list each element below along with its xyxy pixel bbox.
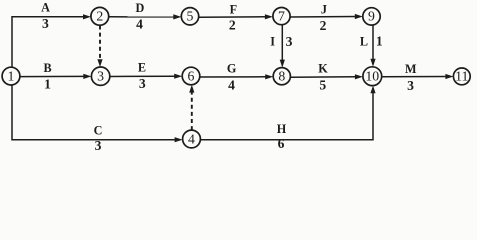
node 6 — [182, 67, 200, 85]
svg-text:10: 10 — [365, 69, 379, 84]
svg-text:3: 3 — [286, 34, 293, 49]
wire E (3 to 6) — [110, 74, 182, 79]
svg-text:E: E — [138, 61, 146, 75]
svg-text:3: 3 — [139, 76, 146, 91]
wire M (10 to 11) — [382, 74, 454, 79]
svg-text:3: 3 — [407, 78, 414, 93]
node 4 — [183, 130, 201, 148]
svg-text:4: 4 — [136, 16, 143, 31]
svg-text:B: B — [44, 61, 52, 75]
svg-text:2: 2 — [229, 17, 236, 32]
svg-text:4: 4 — [188, 131, 195, 146]
svg-text:M: M — [405, 62, 417, 76]
svg-text:H: H — [277, 122, 287, 136]
svg-text:J: J — [321, 3, 327, 17]
wire B (1 to 3) — [20, 74, 92, 79]
svg-text:3: 3 — [97, 69, 104, 84]
node 10 — [363, 67, 382, 86]
svg-text:K: K — [318, 62, 328, 76]
svg-text:G: G — [227, 62, 237, 76]
node 3 — [91, 67, 109, 85]
svg-text:A: A — [41, 1, 50, 15]
svg-text:4: 4 — [228, 77, 235, 92]
svg-text:3: 3 — [95, 138, 102, 153]
svg-text:5: 5 — [187, 9, 194, 24]
svg-text:1: 1 — [44, 76, 51, 91]
svg-text:9: 9 — [368, 9, 375, 24]
wire H (4 right then up to 10) — [200, 86, 375, 140]
svg-text:1: 1 — [8, 68, 15, 83]
svg-text:C: C — [94, 123, 103, 137]
svg-text:7: 7 — [278, 8, 285, 23]
dummy arrow 2 to 3 (dashed) — [97, 26, 102, 68]
svg-text:1: 1 — [376, 33, 383, 48]
node 1 — [2, 67, 20, 85]
wire F (5 to 7) — [199, 14, 273, 19]
dummy arrow 4 to 6 (dashed) — [189, 85, 194, 130]
wire D (2 to 5) — [109, 14, 182, 19]
svg-text:5: 5 — [319, 78, 326, 93]
svg-text:3: 3 — [42, 16, 49, 31]
svg-text:D: D — [135, 1, 144, 15]
svg-text:L: L — [360, 35, 368, 49]
node 11 — [453, 68, 470, 85]
wire C (1 down then right to 4) — [12, 85, 183, 143]
node 5 — [181, 8, 198, 25]
svg-text:11: 11 — [455, 69, 468, 84]
wire A (1 to 2, up-then-right) — [12, 14, 91, 67]
wire G (6 to 8) — [200, 74, 273, 79]
wire I (7 down to 8) — [280, 25, 285, 68]
wire J (7 to 9) — [290, 14, 363, 19]
svg-text:I: I — [270, 34, 275, 48]
svg-text:2: 2 — [320, 18, 327, 33]
svg-text:2: 2 — [96, 9, 103, 24]
node 9 — [363, 8, 380, 25]
node 2 — [91, 7, 109, 25]
node 8 — [273, 68, 290, 85]
svg-text:6: 6 — [188, 68, 195, 83]
svg-text:8: 8 — [278, 69, 285, 84]
svg-text:F: F — [230, 2, 237, 16]
svg-text:6: 6 — [278, 136, 285, 151]
wire K (8 to 10) — [290, 74, 363, 79]
node 7 — [273, 8, 290, 25]
wire L (9 down to 10) — [370, 25, 375, 67]
